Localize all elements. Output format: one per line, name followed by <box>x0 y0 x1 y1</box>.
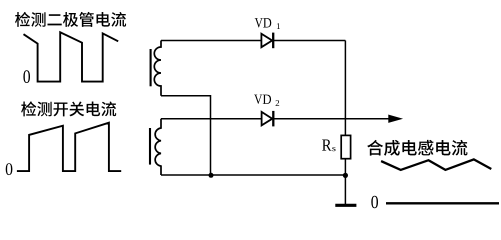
ground symbol <box>335 204 356 207</box>
resistor Rs body <box>341 135 350 158</box>
label: detected diode current caption <box>15 12 126 27</box>
junction dot: T1 return joins ground rail <box>209 173 214 178</box>
wire: bottom ground rail <box>161 174 345 176</box>
wire: T1 bottom jog down to ground rail <box>161 96 211 175</box>
label: detected switch current caption <box>21 101 116 116</box>
label: 0 on diode current axis <box>23 70 30 83</box>
wire: right vertical from top rail down to Rs <box>344 41 346 136</box>
arrowhead: output current direction <box>389 115 401 122</box>
waveform: detected switch current <box>17 123 121 171</box>
transformer T2 winding L2 <box>155 119 161 175</box>
label: Rs <box>322 139 336 151</box>
label: VD2 <box>254 95 279 106</box>
diode VD1 <box>261 33 273 49</box>
waveform: combined inductor current ripple <box>381 159 491 170</box>
transformer T2 core bar <box>149 128 151 165</box>
wire: VD2 rail with output to arrow <box>161 118 390 120</box>
waveform: detected diode current <box>24 32 119 81</box>
transformer T1 core bar <box>150 49 152 86</box>
diode VD2 <box>262 111 274 127</box>
wire: Rs bottom to ground <box>344 159 346 205</box>
junction dot: Rs joins ground rail <box>343 173 348 178</box>
axis line: output zero baseline <box>386 202 499 204</box>
label: VD1 <box>255 18 280 29</box>
transformer T1 winding L1 <box>154 41 161 96</box>
label: 0 on output axis <box>371 196 378 208</box>
label: combined inductor current caption <box>367 140 467 156</box>
label: 0 on switch current axis <box>6 163 13 175</box>
wire: top rail from T1 to right corner <box>161 40 345 42</box>
